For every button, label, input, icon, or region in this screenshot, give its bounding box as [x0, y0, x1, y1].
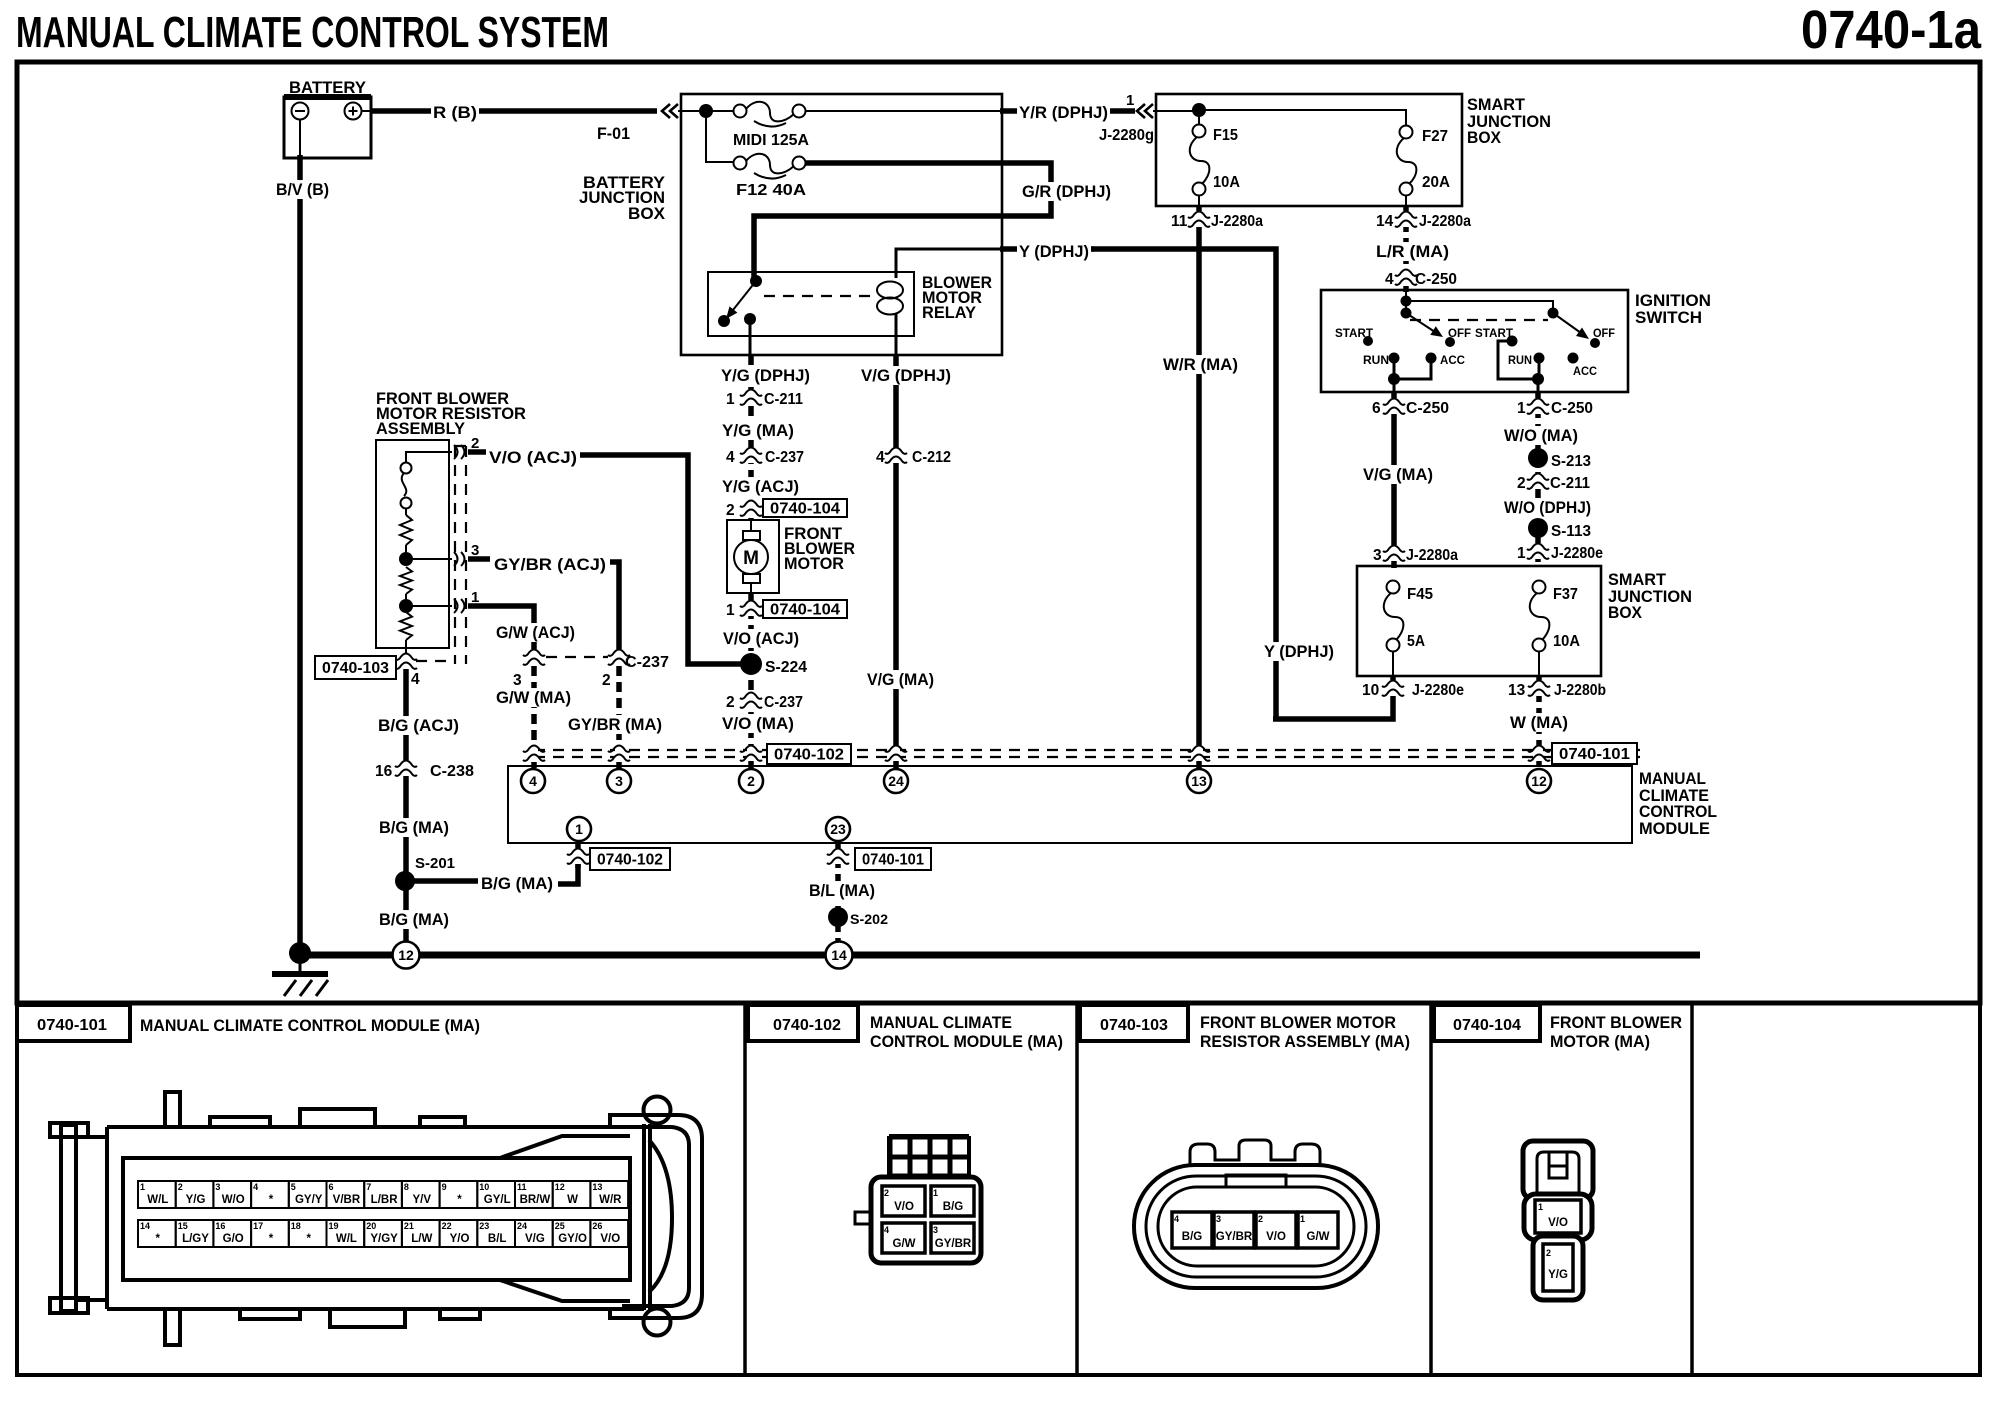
node BJB feed junction [699, 104, 713, 118]
svg-text:11: 11 [1171, 213, 1188, 230]
svg-text:V/O: V/O [1266, 1231, 1286, 1243]
svg-text:BR/W: BR/W [520, 1194, 551, 1206]
svg-text:20: 20 [366, 1221, 376, 1231]
svg-text:10A: 10A [1553, 633, 1580, 650]
svg-text:Y/V: Y/V [413, 1194, 432, 1206]
svg-text:2: 2 [726, 694, 735, 711]
svg-text:GY/L: GY/L [484, 1194, 511, 1206]
fuse F37 10A [1530, 581, 1580, 652]
svg-text:RESISTOR ASSEMBLY (MA): RESISTOR ASSEMBLY (MA) [1200, 1033, 1410, 1051]
svg-text:4: 4 [726, 449, 735, 466]
wire B/G (ACJ) resistor to ground splice S-201 [376, 648, 461, 951]
svg-text:W/R: W/R [599, 1194, 622, 1206]
svg-text:MODULE: MODULE [1639, 819, 1710, 838]
svg-text:Y (DPHJ): Y (DPHJ) [1264, 642, 1334, 661]
svg-text:W (MA): W (MA) [1510, 713, 1568, 732]
resistor connector housing (dashed) [455, 446, 466, 664]
svg-text:B/G (ACJ): B/G (ACJ) [378, 716, 459, 735]
svg-text:0740-104: 0740-104 [1453, 1017, 1521, 1034]
corridor crossing V/O [740, 745, 762, 761]
ground pin 14 [826, 942, 853, 969]
svg-text:1: 1 [1517, 545, 1526, 562]
connector pin 3 of resistor assembly [454, 542, 479, 566]
battery [284, 78, 371, 158]
svg-text:4: 4 [1385, 271, 1394, 288]
svg-text:J-2280b: J-2280b [1554, 682, 1606, 699]
schematic border frame [17, 62, 1980, 1003]
svg-text:12: 12 [555, 1182, 565, 1192]
svg-text:C-211: C-211 [764, 391, 803, 408]
svg-text:V/O: V/O [894, 1201, 914, 1213]
svg-text:2: 2 [1546, 1248, 1551, 1258]
svg-text:F27: F27 [1422, 128, 1448, 145]
svg-text:L/GY: L/GY [182, 1233, 209, 1245]
svg-text:2: 2 [1517, 475, 1526, 492]
svg-text:23: 23 [479, 1221, 489, 1231]
svg-text:C-250: C-250 [1406, 400, 1449, 417]
svg-text:GY/Y: GY/Y [295, 1194, 323, 1206]
svg-text:0740-104: 0740-104 [770, 501, 840, 518]
svg-text:4: 4 [411, 671, 420, 688]
wire GY/BR (ACJ) resistor pin 3 to module pin 3 [468, 555, 664, 768]
wire V/O (ACJ) resistor pin 2 to S-224 [468, 448, 745, 664]
svg-text:20A: 20A [1422, 174, 1450, 191]
inline connector J-2280g pin 1 [1099, 92, 1154, 144]
inline connector C-250 pin 1 [1517, 398, 1593, 417]
connector drawing 0740-104 (2 pin) [1523, 1141, 1593, 1300]
svg-text:24: 24 [888, 773, 904, 789]
svg-text:C-237: C-237 [625, 654, 669, 671]
svg-text:1: 1 [575, 821, 583, 837]
front blower motor resistor assembly box [376, 389, 526, 648]
svg-text:14: 14 [831, 947, 847, 963]
svg-text:GY/O: GY/O [558, 1233, 587, 1245]
svg-text:J-2280e: J-2280e [1551, 545, 1603, 562]
svg-text:MIDI 125A: MIDI 125A [733, 132, 809, 149]
svg-text:G/R (DPHJ): G/R (DPHJ) [1022, 182, 1111, 201]
corridor crossing W [1528, 745, 1550, 761]
svg-text:ACC: ACC [1440, 355, 1465, 367]
svg-text:0740-102: 0740-102 [597, 852, 663, 869]
svg-text:10: 10 [1362, 682, 1379, 699]
svg-text:4: 4 [1174, 1214, 1179, 1224]
svg-text:W: W [567, 1194, 578, 1206]
svg-text:4: 4 [253, 1182, 258, 1192]
svg-text:Y (DPHJ): Y (DPHJ) [1019, 242, 1089, 261]
svg-text:1: 1 [1538, 1202, 1543, 1212]
svg-text:RUN: RUN [1508, 355, 1532, 367]
svg-text:5: 5 [291, 1182, 296, 1192]
wire W (MA) F37 to module pin 12 [1508, 651, 1570, 768]
svg-text:C-250: C-250 [1551, 400, 1593, 417]
svg-text:V/BR: V/BR [333, 1194, 361, 1206]
svg-text:M: M [743, 548, 759, 569]
svg-text:3: 3 [513, 672, 522, 689]
svg-text:24: 24 [517, 1221, 527, 1231]
svg-text:C-212: C-212 [912, 449, 951, 466]
svg-text:21: 21 [404, 1221, 414, 1231]
node splice S-224 [740, 653, 807, 676]
connector drawing 0740-103 (4 pin oval) [1134, 1140, 1378, 1288]
wire B/V (B) battery negative to ground [274, 120, 331, 951]
harness corridor dashed lines 0740-102 / 0740-101 [534, 750, 1640, 757]
relay box blower motor relay [708, 272, 992, 336]
svg-text:V/G (DPHJ): V/G (DPHJ) [861, 366, 951, 385]
fuse F27 20A [1397, 126, 1450, 196]
node splice S-202 [828, 907, 888, 927]
wire G/R (DPHJ) F12 fuse loop to relay feed [754, 163, 1113, 278]
svg-text:C-250: C-250 [1415, 271, 1457, 288]
svg-text:S-201: S-201 [415, 855, 455, 872]
fuse MIDI 125A [733, 102, 809, 149]
wire Y (DPHJ) F45 output loop [1262, 642, 1393, 719]
svg-text:4: 4 [876, 449, 885, 466]
svg-text:V/O (ACJ): V/O (ACJ) [723, 629, 799, 648]
inline connector C-250 pin 6 [1372, 398, 1449, 417]
svg-text:B/G: B/G [943, 1201, 964, 1213]
relay switch [718, 275, 876, 327]
svg-text:MOTOR: MOTOR [784, 554, 844, 573]
wire B/G (MA) splice S-201 to module pin 1 [405, 864, 578, 893]
svg-text:1: 1 [726, 602, 735, 619]
svg-text:G/W (ACJ): G/W (ACJ) [496, 623, 575, 642]
svg-text:0740-101: 0740-101 [862, 852, 924, 869]
svg-text:6: 6 [329, 1182, 334, 1192]
svg-text:CONTROL MODULE (MA): CONTROL MODULE (MA) [870, 1033, 1063, 1051]
corridor label 0740-101 [1552, 743, 1637, 764]
svg-text:F37: F37 [1553, 586, 1578, 603]
wire Y (DPHJ) relay coil to right [896, 242, 1276, 719]
module pin 3 [607, 769, 631, 793]
svg-text:14: 14 [140, 1221, 150, 1231]
svg-text:2: 2 [726, 502, 735, 519]
svg-text:MANUAL CLIMATE CONTROL SYSTEM: MANUAL CLIMATE CONTROL SYSTEM [16, 8, 609, 57]
svg-text:C-211: C-211 [1550, 475, 1590, 492]
svg-text:J-2280a: J-2280a [1419, 213, 1471, 230]
svg-text:BATTERY: BATTERY [289, 78, 367, 97]
svg-text:BOX: BOX [1608, 603, 1643, 622]
svg-text:4: 4 [529, 773, 537, 789]
smart junction box (lower) [1357, 566, 1692, 676]
svg-text:V/O (ACJ): V/O (ACJ) [489, 448, 577, 467]
svg-text:J-2280a: J-2280a [1211, 213, 1263, 230]
svg-text:ASSEMBLY: ASSEMBLY [376, 419, 466, 438]
svg-text:C-238: C-238 [430, 763, 474, 780]
svg-text:2: 2 [1258, 1214, 1263, 1224]
svg-text:V/O: V/O [1548, 1217, 1568, 1229]
svg-text:W/R (MA): W/R (MA) [1163, 355, 1238, 374]
svg-text:S-224: S-224 [765, 659, 807, 676]
manual climate control module box [508, 766, 1717, 843]
svg-text:18: 18 [291, 1221, 301, 1231]
node ground junction [289, 942, 311, 964]
svg-text:W/L: W/L [147, 1194, 168, 1206]
svg-text:C-237: C-237 [765, 449, 804, 466]
module pin 24 [884, 769, 908, 793]
inline connector J-2280e pin 10 [1362, 680, 1464, 699]
svg-text:13: 13 [1191, 773, 1207, 789]
svg-text:14: 14 [1376, 213, 1394, 230]
panel header 0740-104 [1434, 1005, 1682, 1051]
module pin 4 [521, 769, 545, 793]
inline connector C-238 pin 16 [375, 760, 474, 780]
ignition switch input wires [1401, 292, 1559, 320]
svg-text:Y/R (DPHJ): Y/R (DPHJ) [1019, 103, 1108, 122]
svg-text:13: 13 [592, 1182, 602, 1192]
fuse F45 5A [1384, 581, 1434, 652]
svg-text:C-237: C-237 [764, 694, 803, 711]
module pin 2 [739, 769, 763, 793]
ignition switch right bank contacts [1475, 313, 1615, 378]
svg-text:F-01: F-01 [597, 124, 630, 143]
svg-text:SWITCH: SWITCH [1635, 308, 1702, 327]
svg-text:26: 26 [592, 1221, 602, 1231]
panel header 0740-101 [17, 1005, 480, 1041]
svg-text:G/O: G/O [223, 1233, 244, 1245]
relay coil [877, 282, 903, 315]
smart junction box (top) [1156, 94, 1551, 206]
svg-text:S-202: S-202 [850, 911, 888, 927]
inline connector J-2280a pin 11 [1171, 211, 1263, 230]
svg-text:GY/BR (ACJ): GY/BR (ACJ) [494, 555, 606, 574]
corridor label 0740-102 [767, 744, 851, 764]
svg-text:1: 1 [726, 391, 735, 408]
inline connector J-2280b pin 13 [1508, 680, 1606, 699]
svg-text:F45: F45 [1407, 586, 1433, 603]
svg-text:5A: 5A [1407, 633, 1425, 650]
svg-text:13: 13 [1508, 682, 1526, 699]
wire V/G (MA) relay to module pin 24 [865, 448, 936, 768]
page number 0740-1a [1801, 0, 1982, 60]
svg-text:R (B): R (B) [433, 103, 477, 122]
wire SJB internal feed [1153, 110, 1406, 126]
svg-text:Y/O: Y/O [450, 1233, 470, 1245]
svg-text:17: 17 [253, 1221, 263, 1231]
svg-text:*: * [306, 1233, 311, 1245]
svg-text:B/G (MA): B/G (MA) [481, 874, 553, 893]
ignition switch box [1321, 290, 1711, 392]
svg-text:7: 7 [366, 1182, 371, 1192]
panel header 0740-103 [1080, 1005, 1410, 1051]
wire V/O (MA) splice to module pin 2 [720, 664, 796, 768]
inline connector C-237 pin 4 [726, 447, 804, 466]
svg-text:B/G: B/G [1182, 1231, 1203, 1243]
wire B/L (MA) module pin 23 to splice S-202 [807, 842, 931, 951]
svg-text:4: 4 [884, 1225, 889, 1235]
inline connector C-211 pin 2 [1517, 473, 1590, 492]
wire W/O (MA) / W/O (DPHJ) ignition to SJB2 F37 [1502, 392, 1593, 568]
svg-text:3: 3 [1373, 547, 1382, 564]
svg-text:MANUAL CLIMATE CONTROL MODULE: MANUAL CLIMATE CONTROL MODULE (MA) [140, 1017, 480, 1035]
svg-text:16: 16 [215, 1221, 225, 1231]
svg-text:10: 10 [479, 1182, 489, 1192]
svg-text:FRONT BLOWER MOTOR: FRONT BLOWER MOTOR [1200, 1014, 1396, 1032]
node resistor tap 1 [399, 552, 413, 566]
wire Y/G blower feed column [720, 390, 801, 520]
svg-text:V/O: V/O [600, 1233, 620, 1245]
svg-text:F12 40A: F12 40A [736, 182, 806, 199]
wire V/G (DPHJ) relay coil down [859, 313, 953, 448]
svg-text:F15: F15 [1213, 127, 1238, 144]
corridor crossing GY/BR [608, 745, 630, 761]
svg-text:L/BR: L/BR [371, 1194, 399, 1206]
page title [16, 8, 609, 57]
wire W/R (MA) F15 to module pin 13 [1161, 195, 1240, 768]
svg-text:25: 25 [555, 1221, 565, 1231]
wire V/G (MA) ignition to SJB2 F45 [1361, 392, 1435, 568]
module pin 23 [826, 817, 850, 841]
inline connector C-237 pin 2 [726, 692, 803, 711]
corridor crossing G/W [523, 745, 545, 761]
connector pin 2 of resistor assembly [454, 435, 479, 459]
svg-text:15: 15 [178, 1221, 188, 1231]
svg-text:1: 1 [1300, 1214, 1305, 1224]
ground symbol [272, 953, 328, 996]
inline connector C-211 pin 1 [726, 389, 803, 408]
svg-text:GY/BR: GY/BR [1216, 1231, 1253, 1243]
svg-text:MANUAL CLIMATE: MANUAL CLIMATE [870, 1014, 1012, 1032]
svg-text:S-113: S-113 [1551, 523, 1591, 540]
svg-text:3: 3 [615, 773, 623, 789]
svg-text:1: 1 [1126, 92, 1134, 109]
svg-text:2: 2 [747, 773, 755, 789]
inline connector 0740-103 pin 4 [315, 653, 455, 688]
svg-text:ACC: ACC [1573, 366, 1597, 378]
svg-text:0740-101: 0740-101 [37, 1017, 107, 1034]
fuse F15 10A [1190, 125, 1240, 196]
svg-text:B/V (B): B/V (B) [276, 180, 329, 199]
inline connector J-2280a pin 3 [1373, 545, 1458, 564]
wire Y/R (DPHJ) MIDI fuse to smart junction box [806, 103, 1135, 122]
inline connector 0740-104 pin 2 [726, 499, 847, 519]
svg-text:W/O: W/O [222, 1194, 245, 1206]
svg-text:W/O (DPHJ): W/O (DPHJ) [1504, 498, 1591, 517]
wire battery feed inside BJB [678, 111, 734, 162]
svg-text:9: 9 [442, 1182, 447, 1192]
ground pin 12 [393, 942, 420, 969]
ignition switch left bank output [1388, 358, 1431, 392]
svg-text:16: 16 [375, 763, 393, 780]
svg-text:V/G (MA): V/G (MA) [1363, 465, 1433, 484]
svg-text:Y/G (ACJ): Y/G (ACJ) [722, 477, 799, 496]
svg-text:G/W: G/W [893, 1238, 916, 1250]
svg-text:L/R (MA): L/R (MA) [1376, 242, 1449, 261]
svg-text:GY/BR (MA): GY/BR (MA) [568, 715, 662, 734]
svg-text:RELAY: RELAY [922, 303, 977, 322]
svg-text:Y/G (DPHJ): Y/G (DPHJ) [721, 366, 810, 385]
module pin 12 [1527, 769, 1551, 793]
node splice S-213 [1528, 448, 1591, 470]
svg-text:6: 6 [1372, 400, 1381, 417]
corridor crossing W/R [1188, 745, 1210, 761]
svg-text:19: 19 [329, 1221, 339, 1231]
svg-text:*: * [156, 1233, 161, 1245]
wire V/O (ACJ) motor return [721, 593, 801, 660]
inline connector C-250 pin 4 [1385, 269, 1457, 288]
svg-text:B/G (MA): B/G (MA) [379, 910, 449, 929]
svg-text:B/L: B/L [488, 1233, 507, 1245]
fuse F12 40A [734, 154, 807, 199]
svg-text:Y/G (MA): Y/G (MA) [722, 421, 794, 440]
svg-text:23: 23 [830, 821, 846, 837]
svg-text:2: 2 [602, 672, 611, 689]
svg-text:J-2280e: J-2280e [1412, 682, 1464, 699]
svg-text:S-213: S-213 [1551, 453, 1591, 470]
module pin 1 [567, 817, 591, 841]
inline connector F-01 [597, 104, 678, 143]
svg-text:0740-1a: 0740-1a [1801, 0, 1982, 60]
svg-text:G/W (MA): G/W (MA) [496, 688, 571, 707]
svg-text:*: * [269, 1233, 274, 1245]
svg-text:BOX: BOX [628, 204, 666, 223]
front blower motor [727, 520, 855, 593]
svg-text:Y/G: Y/G [1548, 1269, 1568, 1281]
svg-text:B/L (MA): B/L (MA) [809, 881, 875, 900]
ignition switch right bank output [1498, 341, 1544, 392]
svg-text:FRONT BLOWER: FRONT BLOWER [1550, 1014, 1682, 1032]
inline connector C-237 harness link [513, 649, 669, 689]
svg-text:12: 12 [398, 947, 414, 963]
svg-text:1: 1 [1517, 400, 1526, 417]
svg-text:Y/GY: Y/GY [370, 1233, 398, 1245]
node resistor tap 2 [399, 599, 413, 613]
svg-text:GY/BR: GY/BR [935, 1238, 972, 1250]
inline connector J-2280a pin 14 [1376, 211, 1471, 230]
svg-text:3: 3 [215, 1182, 220, 1192]
inline connector 0740-102 pin 1 riser [567, 842, 670, 870]
svg-text:8: 8 [404, 1182, 409, 1192]
module pin 13 [1187, 769, 1211, 793]
ignition switch left bank contacts [1335, 313, 1471, 367]
svg-text:3: 3 [933, 1225, 938, 1235]
svg-text:BOX: BOX [1467, 128, 1502, 147]
svg-text:2: 2 [884, 1188, 889, 1198]
svg-text:1: 1 [933, 1188, 938, 1198]
svg-text:*: * [457, 1194, 462, 1206]
svg-text:L/W: L/W [411, 1233, 432, 1245]
svg-text:*: * [269, 1194, 274, 1206]
panel header 0740-102 [748, 1005, 1063, 1051]
battery junction box [579, 94, 1002, 355]
ground bus wire [300, 952, 1700, 959]
wire L/R (MA) F27 to ignition switch [1374, 195, 1451, 292]
resistor assembly internals [400, 452, 452, 648]
svg-text:V/G (MA): V/G (MA) [867, 670, 934, 689]
svg-text:0740-103: 0740-103 [1100, 1017, 1168, 1034]
svg-text:V/O (MA): V/O (MA) [722, 714, 794, 733]
inline connector C-212 pin 4 [876, 447, 951, 466]
wire G/W (ACJ) resistor pin 1 to module pin 4 [468, 606, 577, 768]
svg-text:1: 1 [140, 1182, 145, 1192]
node SJB feed junction [1192, 103, 1206, 117]
svg-text:0740-102: 0740-102 [774, 747, 844, 764]
svg-text:B/G (MA): B/G (MA) [379, 818, 449, 837]
svg-text:11: 11 [517, 1182, 527, 1192]
svg-text:J-2280g: J-2280g [1099, 127, 1154, 144]
inline connector J-2280e pin 1 [1517, 543, 1603, 562]
inline connector 0740-104 pin 1 [726, 600, 847, 619]
connector drawing 0740-102 (4 pin) [855, 1136, 981, 1263]
svg-text:W/O (MA): W/O (MA) [1504, 426, 1578, 445]
svg-text:3: 3 [1216, 1214, 1221, 1224]
svg-text:12: 12 [1531, 773, 1547, 789]
svg-text:G/W: G/W [1307, 1231, 1330, 1243]
svg-text:0740-104: 0740-104 [770, 602, 840, 619]
wire R (B) battery positive to F-01 [361, 103, 657, 122]
node splice S-201 [395, 855, 455, 891]
svg-text:J-2280a: J-2280a [1406, 547, 1458, 564]
svg-text:0740-101: 0740-101 [1559, 746, 1630, 763]
